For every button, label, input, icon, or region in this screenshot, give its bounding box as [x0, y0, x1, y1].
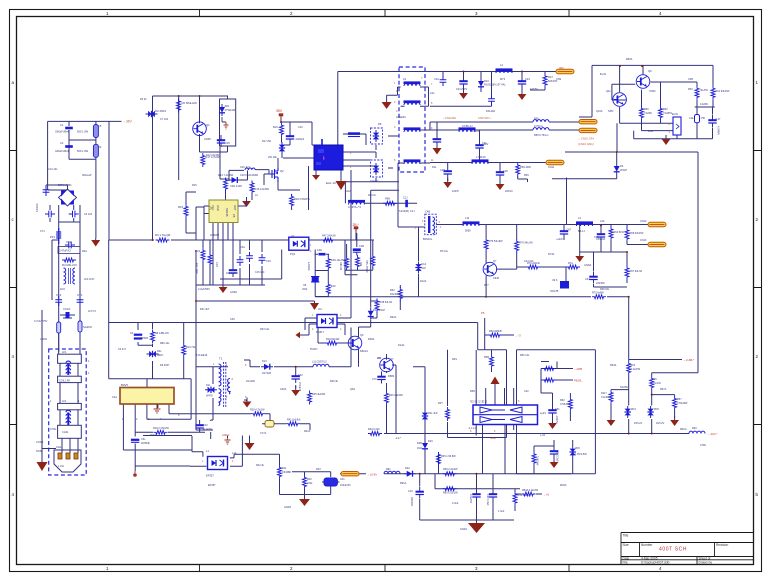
- resistor C5: [650, 376, 654, 390]
- svg-text:OUT: OUT: [233, 205, 237, 211]
- svg-text:→+5: →+5: [543, 493, 549, 497]
- resistor R57: [673, 396, 677, 410]
- svg-text:U2: U2: [291, 234, 295, 238]
- svg-text:C32 1.3uF: C32 1.3uF: [486, 494, 489, 506]
- svg-text:D4C: D4C: [428, 440, 433, 443]
- svg-text:L1: L1: [206, 449, 209, 453]
- svg-text:4.3uF50: 4.3uF50: [469, 494, 472, 504]
- svg-text:R58 0.75mm: R58 0.75mm: [534, 134, 548, 137]
- capacitor C15: [246, 252, 253, 262]
- winding S1: [404, 100, 421, 105]
- svg-text:Q7: Q7: [390, 357, 394, 361]
- svg-text:Q10A: Q10A: [596, 110, 603, 113]
- svg-text:c: c: [12, 217, 15, 222]
- power stub 35V: [279, 114, 283, 119]
- svg-text:LF0: LF0: [60, 287, 65, 291]
- pin N: [66, 453, 70, 459]
- svg-text:C1E: C1E: [689, 117, 694, 120]
- svg-text:C30: C30: [503, 169, 508, 173]
- svg-text:7: 7: [482, 430, 484, 433]
- svg-text:1N74LB: 1N74LB: [262, 372, 271, 375]
- svg-text:100uF/6V: 100uF/6V: [340, 484, 351, 487]
- resistor R4C: [326, 282, 330, 296]
- svg-text:Q6A: Q6A: [350, 388, 355, 391]
- winding S2: [404, 127, 421, 132]
- svg-text:4L8: 4L8: [422, 267, 427, 270]
- svg-text:2W 10k: 2W 10k: [268, 155, 277, 159]
- capacitor C4B: [131, 439, 139, 443]
- transistor Q9: [636, 75, 650, 89]
- svg-text:D8: D8: [378, 122, 382, 126]
- resistor R47 inline: [321, 238, 335, 242]
- svg-text:4: 4: [659, 11, 662, 16]
- svg-text:R6B: R6B: [385, 198, 390, 201]
- wire fb nets: [196, 190, 514, 473]
- svg-text:63D4B: 63D4B: [225, 208, 229, 217]
- svg-text:CH1: CH1: [56, 445, 62, 449]
- svg-text:R31 4k7: R31 4k7: [200, 308, 210, 311]
- svg-text:1N60P3: 1N60P3: [210, 234, 220, 237]
- svg-text:1: 1: [106, 566, 109, 571]
- capacitor C14: [237, 256, 244, 266]
- svg-text:8: 8: [232, 378, 234, 381]
- wire u2 nets: [220, 233, 373, 297]
- capacitor C20: [195, 420, 203, 432]
- svg-text:5: 5: [178, 414, 180, 417]
- wire pwm top nets: [109, 147, 374, 285]
- svg-text:L-N3C: L-N3C: [40, 338, 47, 341]
- resistor R52: [568, 397, 572, 411]
- svg-text:R19 0.47k/2W: R19 0.47k/2W: [153, 427, 169, 430]
- coil R58: [533, 128, 549, 130]
- ground row2: [433, 148, 442, 155]
- svg-text:R54A: R54A: [610, 364, 617, 367]
- capacitor C1J: [405, 200, 408, 207]
- capacitor C16: [259, 254, 266, 264]
- diode D9 (dashed select): [371, 160, 383, 177]
- svg-text:L4: L4: [500, 63, 503, 67]
- svg-text:C28: C28: [440, 168, 445, 172]
- resistor R53A inline: [522, 492, 536, 496]
- diode C2D: [229, 177, 241, 183]
- capacitor C3Y: [43, 186, 50, 196]
- svg-text:PC817: PC817: [316, 330, 324, 334]
- tiny red pin number texture: [202, 82, 520, 463]
- capacitor C76: [377, 372, 385, 384]
- svg-text:←CN10 GPx: ←CN10 GPx: [578, 137, 595, 141]
- wire leftbot nets: [123, 436, 192, 472]
- svg-text:0.47: 0.47: [716, 118, 721, 121]
- svg-text:R48A: R48A: [368, 338, 375, 341]
- resistor R53: [542, 367, 556, 371]
- svg-text:330/16V: 330/16V: [410, 497, 413, 507]
- inductor L1: [348, 200, 365, 205]
- svg-text:Q6: Q6: [360, 333, 364, 337]
- optocoupler U10: [208, 457, 228, 470]
- wire top-right nets: [552, 65, 715, 372]
- svg-text:500 1.0W: 500 1.0W: [77, 149, 89, 153]
- connector CN13 pill: [648, 242, 666, 246]
- svg-text:U9 K: U9 K: [552, 279, 558, 282]
- svg-text:1kW: 1kW: [648, 130, 654, 133]
- inductor L2A: [245, 168, 255, 170]
- svg-text:C3B: C3B: [688, 78, 693, 81]
- capacitor C3: [134, 334, 142, 340]
- resistor R75: [484, 238, 488, 252]
- svg-text:54L9W: 54L9W: [620, 386, 629, 389]
- winding P1: [404, 81, 421, 86]
- svg-text:1A/3Dk: 1A/3Dk: [307, 262, 311, 271]
- svg-text:R5B: R5B: [484, 356, 489, 359]
- svg-text:(CN10 GMx): (CN10 GMx): [578, 142, 594, 146]
- svg-text:4L7k/6V: 4L7k/6V: [203, 428, 213, 431]
- svg-text:1: 1: [88, 372, 90, 375]
- svg-text:1: 1: [88, 360, 90, 363]
- connector CH1 AC inlet: [54, 450, 81, 472]
- svg-text:C2C 4n7: C2C 4n7: [240, 166, 250, 169]
- IC U1 PWM: [209, 200, 238, 223]
- svg-text:Q9: Q9: [648, 69, 652, 73]
- capacitor C31: [475, 140, 483, 152]
- svg-text:IC6L7B: IC6L7B: [550, 290, 559, 293]
- svg-text:D14A: D14A: [398, 344, 405, 347]
- svg-text:T1: T1: [219, 357, 223, 361]
- fuse F2: [78, 321, 82, 332]
- svg-text:Q11: Q11: [606, 89, 611, 93]
- svg-text:R61 94UPW: R61 94UPW: [716, 90, 731, 93]
- optocoupler U2: [289, 237, 309, 250]
- svg-text:3: 3: [394, 126, 396, 129]
- resistor R22: [208, 253, 212, 267]
- svg-text:R4A 6.2k0: R4A 6.2k0: [368, 428, 380, 431]
- svg-text:1210/6: 1210/6: [35, 203, 39, 212]
- resistor R70 inline: [591, 294, 607, 299]
- svg-text:1: 1: [669, 131, 671, 134]
- connector CN9 pill: [556, 69, 574, 73]
- svg-text:R66: R66: [644, 108, 649, 111]
- svg-text:C87: C87: [567, 229, 572, 232]
- wire right nets: [315, 297, 706, 434]
- svg-text:C76: C76: [372, 378, 377, 381]
- svg-text:L7 4F16: L7 4F16: [476, 155, 486, 159]
- dashed enclosure AC inlet: [49, 349, 86, 475]
- svg-text:C4a: C4a: [112, 395, 117, 399]
- inductor L7: [472, 159, 489, 164]
- connector CN10b pill: [579, 128, 597, 132]
- svg-text:L1A: L1A: [232, 452, 237, 455]
- svg-text:ZD4: ZD4: [631, 408, 636, 411]
- capacitor C22: [440, 76, 447, 86]
- svg-text:C3 4n7: C3 4n7: [118, 348, 127, 351]
- resistor R1 500 1.0W: [93, 125, 98, 138]
- svg-text:1047F: 1047F: [452, 190, 460, 193]
- transistor Q7: [380, 358, 394, 372]
- ground pwm bottom: [219, 283, 228, 293]
- svg-text:D4B: D4B: [417, 442, 422, 445]
- svg-text:4: 4: [12, 354, 15, 359]
- svg-text:4: 4: [12, 492, 15, 497]
- svg-text:R60 0.62/2W: R60 0.62/2W: [443, 492, 458, 495]
- resistor R39: [513, 492, 517, 506]
- svg-text:4: 4: [506, 400, 508, 403]
- transformer LF1 upper: [58, 354, 82, 382]
- svg-text:R10S2(BY157 4A): R10S2(BY157 4A): [484, 83, 505, 87]
- ground fb2: [291, 386, 300, 396]
- ground red dot leftbot: [133, 471, 137, 477]
- ground T1: [243, 398, 252, 408]
- svg-text:C77A: C77A: [260, 432, 267, 435]
- svg-text:File: File: [623, 561, 628, 565]
- svg-text:CN9: CN9: [556, 78, 562, 81]
- thermistor C41: [322, 478, 339, 486]
- svg-text:1: 1: [756, 80, 759, 85]
- svg-text:ZD6A: ZD6A: [560, 484, 567, 487]
- svg-text:6: 6: [494, 430, 496, 433]
- resistor R76: [515, 239, 519, 253]
- svg-text:R44 54L9W: R44 54L9W: [326, 338, 340, 341]
- svg-text:PC817: PC817: [310, 348, 318, 351]
- svg-text:D821A: D821A: [360, 349, 368, 353]
- svg-text:NOR: NOR: [36, 449, 42, 453]
- ground row3 b: [496, 180, 505, 190]
- wire LF interconnect: [59, 332, 80, 453]
- svg-text:C1: C1: [60, 123, 64, 127]
- svg-text:R6C: R6C: [692, 427, 697, 430]
- svg-text:R75 54L/9W: R75 54L/9W: [489, 240, 504, 243]
- resistor BL9: [280, 123, 284, 137]
- svg-text:←GPB: ←GPB: [574, 367, 582, 371]
- zener D1L: [205, 387, 217, 393]
- ground ic arrow: [336, 170, 347, 190]
- ground bridge return: [91, 238, 100, 247]
- resistor R5B: [490, 355, 494, 369]
- svg-text:C5: C5: [654, 378, 658, 381]
- svg-text:FB: FB: [232, 214, 236, 218]
- svg-text:R57A: R57A: [660, 388, 667, 391]
- ground earth arrow: [37, 458, 48, 471]
- transistor Q1: [193, 122, 207, 136]
- svg-text:R40: R40: [307, 478, 312, 481]
- svg-text:C51: C51: [555, 408, 560, 411]
- svg-text:S011uW: S011uW: [82, 174, 92, 177]
- svg-text:R67 94L/W: R67 94L/W: [630, 270, 643, 273]
- resistor R64: [609, 227, 613, 241]
- resistor R54: [627, 361, 631, 375]
- svg-text:74L9W: 74L9W: [644, 112, 653, 115]
- inductor L4: [496, 68, 513, 73]
- capacitor C24: [518, 76, 526, 88]
- ground shunt: [548, 419, 557, 429]
- svg-text:G60sFU8x4: G60sFU8x4: [55, 130, 69, 134]
- svg-text:D1L: D1L: [206, 384, 211, 387]
- svg-text:2: 2: [136, 418, 138, 421]
- capacitor C36: [550, 446, 558, 458]
- svg-text:GND3: GND3: [284, 506, 292, 509]
- svg-text:Title: Title: [623, 534, 629, 538]
- svg-text:Drawn by: Drawn by: [699, 561, 713, 565]
- svg-text:C1J: C1J: [403, 197, 408, 200]
- svg-text:R50 14L: R50 14L: [520, 354, 530, 357]
- svg-text:R74 1k: R74 1k: [440, 250, 449, 253]
- svg-text:5: 5: [394, 159, 396, 162]
- svg-text:C21: C21: [430, 92, 435, 95]
- svg-text:R65 94UPW: R65 94UPW: [630, 232, 645, 235]
- svg-text:D4: D4: [620, 164, 624, 168]
- svg-text:B+34: B+34: [600, 73, 607, 76]
- svg-text:CX2: CX2: [66, 240, 72, 244]
- resistor R63: [695, 86, 699, 100]
- resistor R59: [516, 163, 520, 177]
- svg-text:R30 1k: R30 1k: [368, 194, 377, 197]
- svg-text:L2: L2: [255, 194, 258, 197]
- svg-text:4YW10M: 4YW10M: [225, 108, 236, 112]
- svg-text:R36 1.96.8W: R36 1.96.8W: [441, 455, 456, 458]
- resistor R62: [659, 106, 663, 120]
- svg-text:R56: R56: [534, 118, 539, 121]
- svg-text:C945: C945: [204, 137, 211, 141]
- svg-text:R73A: R73A: [548, 253, 555, 256]
- svg-text:LF1: LF1: [62, 350, 67, 354]
- box aux column: [220, 99, 236, 146]
- capacitor C25: [217, 135, 225, 147]
- svg-text:0.5W: 0.5W: [700, 444, 706, 447]
- svg-text:D6L: D6L: [157, 350, 162, 353]
- svg-text:Lµ4V: Lµ4V: [540, 411, 546, 415]
- resistor R21: [201, 248, 205, 262]
- svg-text:→-O: →-O: [515, 334, 522, 338]
- svg-text:1: 1: [310, 244, 312, 247]
- svg-text:3: 3: [340, 328, 342, 331]
- transformer LF0: [64, 268, 76, 284]
- capacitor C1B row2: [433, 134, 441, 146]
- inductor PF1: [56, 228, 61, 244]
- IC U11 dual opamp: [473, 405, 538, 425]
- svg-text:.7uF/6(M): .7uF/6(M): [398, 210, 409, 213]
- svg-text:1: 1: [213, 363, 215, 366]
- svg-text:D10: D10: [484, 79, 489, 83]
- svg-text:L-22: L-22: [540, 434, 546, 437]
- tiny value labels texture: [40, 58, 709, 531]
- ground botleft b: [299, 497, 310, 506]
- svg-text:M73: M73: [500, 77, 506, 81]
- svg-text:D:\backup\400T.ddb: D:\backup\400T.ddb: [641, 561, 670, 565]
- transformer LF1 lower: [58, 403, 82, 438]
- svg-text:1: 1: [440, 226, 442, 229]
- svg-text:C33: C33: [215, 262, 219, 267]
- svg-text:R38 2.2k/2W: R38 2.2k/2W: [443, 468, 458, 471]
- svg-text:1: 1: [50, 400, 52, 403]
- capacitor C11: [348, 132, 360, 136]
- svg-text:7.4L/PW: 7.4L/PW: [631, 368, 641, 371]
- svg-text:L3A: L3A: [600, 220, 605, 223]
- svg-text:R47 240UW: R47 240UW: [322, 235, 336, 238]
- svg-text:C3A: C3A: [240, 246, 245, 249]
- svg-text:C41: C41: [340, 478, 345, 481]
- wire startup net: [153, 96, 229, 240]
- svg-text:B4S0UL: B4S0UL: [423, 238, 433, 241]
- svg-text:C7 104: C7 104: [160, 118, 169, 121]
- svg-text:C13TA~*3: C13TA~*3: [348, 205, 361, 209]
- svg-text:R68 94L: R68 94L: [600, 288, 610, 291]
- wire snubber box loop: [48, 121, 122, 240]
- ground bottom big: [468, 521, 485, 533]
- svg-text:D13: D13: [262, 360, 267, 363]
- svg-text:R63: R63: [688, 88, 693, 91]
- optocoupler U4: [317, 315, 337, 328]
- diode D8 (dashed select): [371, 128, 383, 144]
- svg-text:R5A 945kB: R5A 945kB: [489, 330, 502, 333]
- resistor R14: [224, 178, 228, 192]
- resistor R62B: [398, 287, 402, 301]
- zener ZD1: [219, 104, 225, 116]
- svg-text:R5C: R5C: [524, 174, 529, 177]
- capacitor C87: [560, 226, 568, 238]
- capacitor CY: [45, 211, 55, 218]
- svg-text:1.3uF: 1.3uF: [498, 510, 505, 513]
- resistor R45: [308, 391, 312, 405]
- zener ZD4: [625, 406, 631, 418]
- svg-text:→36V: →36V: [123, 120, 133, 124]
- svg-text:R2: R2: [98, 145, 102, 149]
- svg-text:COIL LF8: COIL LF8: [59, 379, 70, 382]
- svg-text:R4 M4LU/N: R4 M4LU/N: [62, 263, 77, 267]
- svg-text:3: 3: [475, 11, 478, 16]
- svg-text:R33 14L: R33 14L: [260, 328, 270, 331]
- diode D13: [261, 364, 273, 370]
- resistor R40: [303, 475, 307, 489]
- svg-text:R2A: R2A: [82, 250, 87, 253]
- capacitor CX2A: [60, 312, 75, 319]
- svg-text:D4A: D4A: [405, 467, 410, 470]
- svg-text:470/50: 470/50: [530, 88, 538, 91]
- svg-text:C16: C16: [266, 260, 271, 263]
- svg-text:2021k3: 2021k3: [296, 137, 305, 141]
- ground pwm: [242, 197, 251, 207]
- svg-text:PF1: PF1: [50, 235, 56, 239]
- svg-text:R21: R21: [195, 249, 201, 253]
- resistor R41 inline: [286, 422, 300, 426]
- capacitor C9: [488, 95, 495, 105]
- power arrow up: [491, 377, 500, 385]
- svg-text:400T SCH: 400T SCH: [659, 547, 687, 553]
- svg-text:D4L 4L8: D4L 4L8: [428, 412, 438, 415]
- svg-text:C23 250V: C23 250V: [456, 88, 467, 91]
- svg-text:GND: GND: [216, 205, 220, 211]
- svg-text:R49 14k/9W: R49 14k/9W: [389, 394, 403, 397]
- svg-text:16A/4C: 16A/4C: [370, 179, 379, 183]
- svg-text:C1B: C1B: [359, 245, 364, 248]
- svg-text:4: 4: [340, 314, 342, 317]
- svg-text:2: 2: [756, 217, 759, 222]
- svg-text:1M4: 1M4: [417, 447, 422, 450]
- connector CN10a pill: [579, 120, 597, 124]
- transformer T1: [219, 362, 230, 407]
- svg-text:4P683: 4P683: [141, 337, 149, 340]
- svg-text:R5N 17B/W: R5N 17B/W: [365, 260, 368, 273]
- title block: [621, 533, 754, 565]
- svg-text:500 1.0W: 500 1.0W: [77, 130, 89, 134]
- connector CN12 pill: [648, 222, 666, 226]
- ground red small: [225, 438, 231, 444]
- svg-text:74L/PN: 74L/PN: [700, 89, 709, 92]
- svg-text:LF1: LF1: [62, 399, 67, 403]
- svg-text:4: 4: [232, 460, 234, 463]
- svg-text:L3: L3: [578, 216, 581, 220]
- box 0.47uF/X2/275V: [58, 247, 80, 254]
- svg-text:R76 94L/9N: R76 94L/9N: [519, 242, 533, 245]
- diode D10: [478, 78, 484, 90]
- svg-text:U4: U4: [318, 307, 322, 311]
